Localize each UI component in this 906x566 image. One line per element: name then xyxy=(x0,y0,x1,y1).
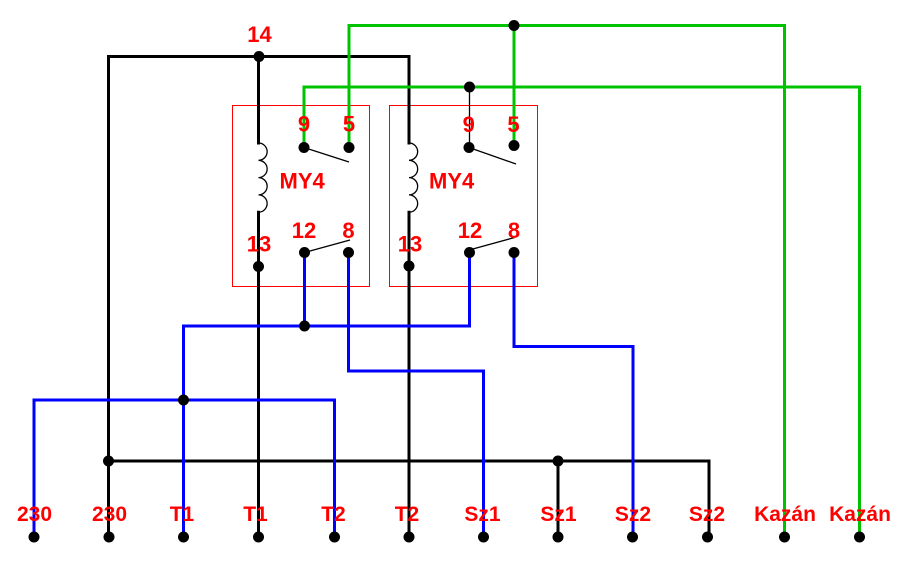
svg-text:8: 8 xyxy=(508,218,520,243)
svg-text:9: 9 xyxy=(463,112,475,137)
svg-text:T2: T2 xyxy=(321,503,346,526)
svg-text:MY4: MY4 xyxy=(280,169,326,194)
svg-text:5: 5 xyxy=(507,112,519,137)
svg-text:5: 5 xyxy=(343,112,355,137)
svg-text:T1: T1 xyxy=(243,503,268,526)
svg-text:Kazán: Kazán xyxy=(754,503,816,526)
svg-text:13: 13 xyxy=(398,232,422,257)
svg-text:8: 8 xyxy=(342,218,354,243)
svg-text:Kazán: Kazán xyxy=(829,503,891,526)
svg-text:MY4: MY4 xyxy=(429,169,475,194)
svg-text:T2: T2 xyxy=(395,503,420,526)
svg-text:13: 13 xyxy=(247,232,271,257)
svg-text:230: 230 xyxy=(92,503,127,526)
svg-text:Sz1: Sz1 xyxy=(464,503,501,526)
svg-text:T1: T1 xyxy=(170,503,195,526)
svg-text:14: 14 xyxy=(247,22,272,47)
svg-text:12: 12 xyxy=(292,218,316,243)
svg-text:Sz2: Sz2 xyxy=(615,503,651,526)
svg-text:12: 12 xyxy=(458,218,482,243)
svg-text:Sz2: Sz2 xyxy=(689,503,725,526)
svg-text:9: 9 xyxy=(298,112,310,137)
svg-text:Sz1: Sz1 xyxy=(540,503,577,526)
svg-text:230: 230 xyxy=(17,503,52,526)
